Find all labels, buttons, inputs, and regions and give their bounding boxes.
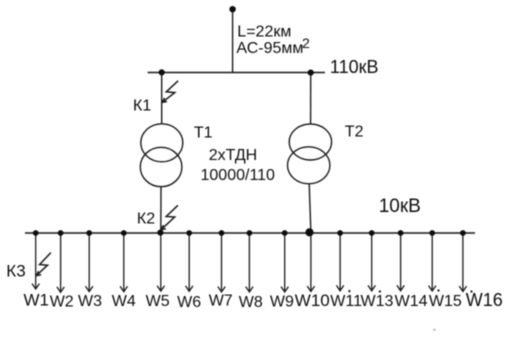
svg-text:W8: W8	[239, 294, 263, 311]
svg-text:W9: W9	[270, 294, 294, 311]
svg-text:W16: W16	[466, 290, 503, 310]
svg-text:Т1: Т1	[194, 124, 213, 141]
svg-text:W6: W6	[177, 294, 201, 311]
svg-text:W4: W4	[112, 293, 136, 310]
svg-text:К1: К1	[133, 97, 151, 114]
svg-text:К2: К2	[137, 211, 155, 228]
svg-text:2: 2	[302, 35, 310, 51]
svg-text:110кВ: 110кВ	[330, 57, 379, 77]
svg-text:W1: W1	[24, 291, 50, 310]
svg-text:W15: W15	[429, 293, 462, 310]
svg-text:W3: W3	[78, 293, 102, 310]
svg-text:W2: W2	[50, 294, 74, 311]
svg-text:W13: W13	[361, 293, 394, 310]
svg-text:W14: W14	[395, 293, 428, 310]
svg-text:L=22км: L=22км	[237, 23, 291, 40]
svg-text:10кВ: 10кВ	[379, 196, 421, 217]
svg-text:К3: К3	[6, 262, 25, 281]
svg-text:2хТДН: 2хТДН	[209, 147, 258, 164]
svg-text:W11: W11	[330, 293, 362, 310]
svg-text:10000/110: 10000/110	[201, 167, 276, 184]
svg-text:W5: W5	[146, 293, 170, 310]
svg-text:АС-95мм: АС-95мм	[236, 40, 303, 57]
svg-text:W10: W10	[295, 291, 330, 310]
svg-text:Т2: Т2	[345, 124, 364, 141]
svg-text:W7: W7	[209, 293, 233, 310]
